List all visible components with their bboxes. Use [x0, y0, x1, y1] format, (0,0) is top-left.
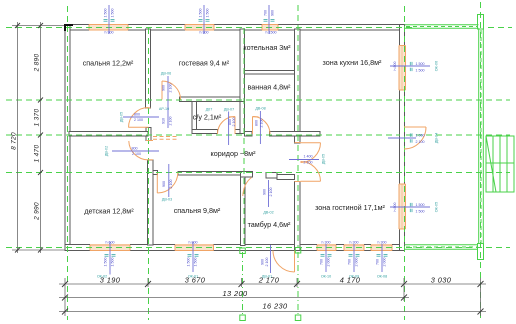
svg-text:900: 900	[162, 181, 166, 187]
wall tambour left	[241, 172, 246, 246]
wall wc left	[192, 102, 197, 134]
svg-text:2 100: 2 100	[169, 180, 173, 189]
wall exterior left	[65, 25, 70, 251]
dim entrance DV-01	[261, 245, 273, 279]
svg-text:1 500: 1 500	[104, 258, 108, 267]
svg-text:спальня 12,2м²: спальня 12,2м²	[83, 59, 134, 68]
section line B x=298	[295, 248, 301, 321]
svg-text:800: 800	[255, 120, 259, 126]
svg-text:1 500: 1 500	[416, 69, 425, 73]
svg-text:ОК-06: ОК-06	[435, 61, 439, 71]
svg-text:h 300: h 300	[350, 241, 359, 245]
dim row2	[59, 297, 409, 299]
door DV-08 bath	[253, 117, 271, 135]
svg-text:АР-10: АР-10	[159, 107, 169, 111]
svg-text:2 100: 2 100	[269, 188, 273, 197]
svg-text:h 800: h 800	[393, 203, 397, 212]
svg-text:800: 800	[134, 113, 140, 117]
dim window OK-04 top	[199, 5, 210, 35]
svg-text:2 170: 2 170	[258, 276, 280, 285]
svg-text:700: 700	[264, 10, 268, 16]
svg-text:1 500: 1 500	[206, 9, 210, 18]
dim window OK-05 right	[390, 202, 439, 214]
door children room (opening in V_A wall)	[129, 141, 148, 160]
door DV-07 wc	[218, 117, 236, 135]
svg-text:2 100: 2 100	[265, 258, 269, 267]
axis V x=148.5	[148, 28, 150, 320]
terrace bottom edge	[405, 244, 478, 246]
extension lines	[12, 25, 65, 27]
ticks bottom row1	[62, 281, 484, 315]
dim door DV-02	[263, 180, 274, 215]
svg-text:h 300: h 300	[378, 241, 387, 245]
axis V x=67.5	[67, 6, 69, 320]
svg-text:1 500: 1 500	[104, 9, 108, 18]
svg-text:800: 800	[132, 147, 138, 151]
dim door DV-08	[255, 107, 266, 145]
door DV-02 tambour inner	[243, 178, 252, 197]
wall exterior right	[400, 25, 405, 251]
wall exterior bottom	[65, 245, 405, 251]
svg-text:1 500: 1 500	[187, 258, 191, 267]
window OK-10 bottom living x317-336	[317, 244, 336, 251]
dim window OK-08	[376, 241, 388, 279]
dim line left inner	[40, 22, 42, 253]
svg-text:1 500: 1 500	[416, 62, 425, 66]
svg-text:h 300: h 300	[322, 241, 331, 245]
svg-text:спальня 9,8м²: спальня 9,8м²	[174, 206, 221, 215]
svg-text:ДВ-02: ДВ-02	[263, 211, 273, 215]
window OK-01 bottom bedroom2 x175-211	[175, 244, 214, 251]
dim window OK-01 bottom	[187, 241, 199, 279]
wall tambour top p3	[277, 175, 295, 180]
svg-text:ДВ-08: ДВ-08	[255, 107, 265, 111]
dim door DV-03	[162, 164, 173, 202]
svg-text:960: 960	[271, 10, 275, 16]
svg-text:2 000: 2 000	[355, 258, 359, 267]
svg-text:900: 900	[263, 189, 267, 195]
svg-text:1 000: 1 000	[416, 134, 425, 138]
svg-text:3 670: 3 670	[185, 276, 206, 285]
svg-text:ОК-05: ОК-05	[435, 202, 439, 212]
door opening AR-10 (corridor arch)	[146, 107, 151, 109]
door DV-01 entrance	[273, 251, 295, 273]
window OK-06 right wall y48-90	[399, 46, 406, 91]
svg-text:8 720: 8 720	[11, 132, 18, 150]
wall living left lower	[295, 182, 301, 251]
svg-text:ОК-10: ОК-10	[321, 275, 331, 279]
svg-text:1 500: 1 500	[111, 9, 115, 18]
axis H y=247.5	[6, 247, 510, 249]
svg-text:2 100: 2 100	[134, 118, 143, 122]
axis H y=135	[6, 134, 510, 136]
svg-text:2 000: 2 000	[327, 258, 331, 267]
axis V x=298	[297, 5, 299, 248]
svg-text:2 890: 2 890	[34, 54, 41, 73]
wall boiler bottom	[245, 71, 295, 75]
svg-text:с/у 2,1м²: с/у 2,1м²	[193, 113, 222, 122]
svg-text:4 170: 4 170	[340, 276, 361, 285]
wall wc bottom	[192, 130, 218, 134]
LEFT DIMENSIONS	[11, 22, 68, 253]
door DV-04 right wall (terrace exit)	[400, 127, 426, 150]
svg-text:700: 700	[320, 259, 324, 265]
ticks left	[15, 23, 43, 253]
dim door DV-06	[159, 72, 173, 129]
wall boiler/kitchen vertical	[295, 29, 301, 132]
svg-text:ванная 4,8м²: ванная 4,8м²	[248, 83, 291, 92]
dim window OK-07 top	[264, 5, 277, 35]
wall bedroom2 top	[153, 171, 157, 175]
WALLS	[65, 25, 405, 251]
window OK-05 right wall y184-229	[399, 184, 406, 229]
BLUE DIMS	[97, 5, 439, 279]
svg-text:ДВ-04: ДВ-04	[435, 133, 439, 143]
window OK-09 bottom living x344-364	[344, 244, 364, 251]
svg-text:h 900: h 900	[200, 31, 209, 35]
dim window OK-06 right	[390, 61, 439, 73]
dim window OK-09	[348, 241, 360, 279]
svg-text:2 100: 2 100	[260, 119, 264, 128]
dim door bedroom1	[120, 112, 160, 122]
axis V x=404.5	[404, 6, 406, 320]
terrace top edge	[405, 24, 479, 26]
terrace stairs	[486, 136, 514, 192]
svg-text:2 100: 2 100	[169, 117, 173, 126]
wall bath bottom	[245, 132, 253, 137]
svg-text:900: 900	[162, 85, 166, 91]
dim wc labels	[206, 108, 236, 146]
svg-text:h 1500: h 1500	[266, 31, 277, 35]
window OK-02 bottom children x90-130	[90, 244, 130, 251]
svg-text:котельная 3м²: котельная 3м²	[243, 43, 291, 52]
svg-text:1 500: 1 500	[416, 210, 425, 214]
svg-text:700: 700	[348, 259, 352, 265]
svg-text:3 190: 3 190	[100, 276, 121, 285]
DOORS	[129, 81, 427, 272]
svg-text:1 500: 1 500	[194, 258, 198, 267]
door bedroom1 (opening in V_A wall)	[129, 108, 149, 128]
dim door DV-04 right	[388, 133, 439, 144]
svg-text:900: 900	[261, 259, 265, 265]
svg-text:2 000: 2 000	[383, 258, 387, 267]
svg-text:h 800: h 800	[189, 241, 198, 245]
wall living left upper	[295, 136, 301, 143]
svg-text:h 800: h 800	[393, 62, 397, 71]
dim row1	[59, 283, 486, 285]
wall children/bedroom2 vertical	[148, 160, 154, 245]
svg-text:ОК-08: ОК-08	[377, 275, 387, 279]
dim window OK-03 top	[104, 5, 115, 35]
dim window OK-10	[320, 241, 332, 279]
svg-text:1 500: 1 500	[199, 9, 203, 18]
wall wc right upper	[240, 102, 245, 134]
dim door DV-05 kitchen	[289, 154, 326, 165]
svg-text:гостевая 9,4 м²: гостевая 9,4 м²	[179, 59, 230, 68]
corner mark top-left	[64, 24, 73, 31]
svg-text:13 200: 13 200	[222, 289, 247, 298]
svg-text:Д07: Д07	[206, 108, 213, 112]
wall tambour top p2	[266, 173, 277, 179]
svg-text:зона кухни 16,8м²: зона кухни 16,8м²	[323, 58, 382, 67]
svg-text:2 100: 2 100	[416, 140, 425, 144]
svg-text:1 500: 1 500	[111, 258, 115, 267]
axis H y=100	[6, 99, 510, 101]
wall exterior top	[65, 25, 405, 31]
window OK-03 top bedroom1 x89-128	[89, 24, 128, 31]
dim door children	[105, 146, 160, 156]
terrace right edge	[478, 29, 480, 244]
terrace post top-right	[478, 15, 484, 30]
svg-text:2 100: 2 100	[132, 152, 141, 156]
svg-text:ДВ-06: ДВ-06	[161, 72, 171, 76]
axis V x=244	[243, 28, 245, 248]
axis H y=27.5	[6, 27, 412, 29]
svg-text:ДВ-02: ДВ-02	[105, 146, 109, 156]
WINDOWS (orange)	[89, 24, 406, 251]
double door kitchen/living (lower leaf)	[295, 162, 321, 182]
dim line left outer	[17, 22, 19, 253]
svg-text:2 100: 2 100	[304, 161, 313, 165]
svg-text:700: 700	[376, 259, 380, 265]
wall bedroom1/children horizontal	[69, 132, 148, 137]
wall guest/boiler vertical	[240, 29, 245, 102]
terrace post bottom-right	[478, 244, 484, 260]
svg-text:h 900: h 900	[105, 31, 114, 35]
section line A x=244	[240, 248, 246, 321]
svg-text:1 400: 1 400	[304, 155, 313, 159]
TERRACE GREEN	[240, 15, 514, 321]
svg-text:16 230: 16 230	[262, 302, 287, 311]
wall tambour top p1	[241, 172, 253, 178]
svg-text:ДВ-05: ДВ-05	[120, 112, 124, 122]
wall jamb between bedroom1 door and children door	[146, 128, 151, 141]
svg-text:910: 910	[162, 118, 166, 124]
svg-text:детская 12,8м²: детская 12,8м²	[84, 207, 134, 216]
svg-text:2 990: 2 990	[34, 202, 41, 221]
svg-text:ДВ-07: ДВ-07	[224, 108, 234, 112]
ROOM LABELS	[83, 43, 386, 229]
door DV-03 bedroom2	[157, 173, 178, 193]
lintel dashes over bedroom2 doorway	[153, 136, 178, 138]
svg-text:1 370: 1 370	[34, 109, 41, 127]
svg-text:ДВ-03: ДВ-03	[162, 198, 172, 202]
dim row3	[59, 311, 486, 313]
svg-text:3 030: 3 030	[431, 276, 452, 285]
svg-text:h 600: h 600	[106, 241, 115, 245]
svg-text:тамбур 4,6м²: тамбур 4,6м²	[248, 220, 291, 229]
window OK-08 bottom living x371-392	[371, 244, 392, 251]
svg-text:зона гостиной 17,1м²: зона гостиной 17,1м²	[315, 203, 385, 212]
svg-text:1 470: 1 470	[34, 145, 41, 163]
svg-text:2 100: 2 100	[169, 84, 173, 93]
window OK-04 top guest x185-214	[185, 24, 214, 31]
extension verticals	[64, 278, 66, 316]
double door kitchen/living (upper leaf)	[295, 143, 321, 163]
svg-text:ДВ-05: ДВ-05	[322, 154, 326, 164]
svg-text:2 100: 2 100	[232, 118, 236, 127]
door DV-06 guest room (corridor top wall)	[162, 81, 181, 100]
window OK-07 top boiler x262-278	[262, 24, 278, 31]
wall bedroom1/guest vertical	[146, 29, 151, 108]
axis H y=172.5	[6, 172, 510, 174]
svg-text:1 500: 1 500	[416, 203, 425, 207]
BOTTOM DIMENSIONS	[59, 276, 486, 317]
dim window OK-02 bottom	[97, 241, 116, 279]
svg-text:коридор ~8м²: коридор ~8м²	[211, 149, 257, 158]
wall corridor top (guest bottom)	[180, 97, 245, 102]
axis V x=480.5	[480, 2, 482, 320]
